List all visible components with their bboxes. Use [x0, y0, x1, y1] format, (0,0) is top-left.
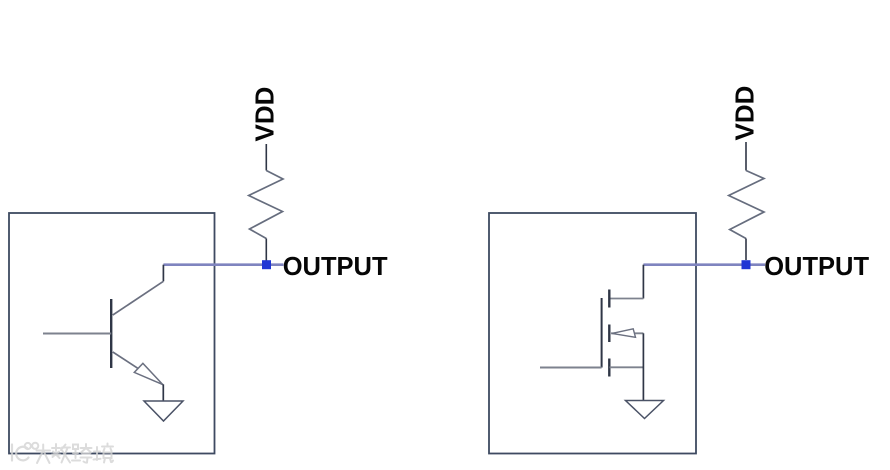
svg-text:VDD: VDD [250, 87, 280, 142]
ground symbol (left) [144, 401, 183, 421]
transistor M1 source lead [610, 366, 644, 368]
transistor Q1 emitter diagonal [113, 352, 163, 385]
transistor Q1 collector diagonal [113, 281, 164, 315]
wire emitter to ground [162, 384, 164, 401]
wire resistor R2 to output node [745, 239, 747, 261]
resistor R2 (pull-up, right) [729, 171, 764, 239]
ground symbol (right) [626, 401, 664, 419]
transistor M1 drain lead [610, 298, 644, 300]
resistor R1 (pull-up, left) [249, 171, 283, 239]
transistor M1 channel dash (body) [608, 325, 610, 343]
svg-text:OUTPUT: OUTPUT [283, 253, 388, 281]
wire OUTPUT net (left) [163, 263, 283, 266]
node junction OUTPUT (right) [742, 260, 751, 269]
wire VDD lead to resistor R1 [265, 144, 267, 171]
transistor M1 channel dash (source) [608, 359, 610, 377]
wire gate lead (right) [540, 367, 602, 369]
wire VDD lead to resistor R2 [745, 142, 747, 171]
wire base lead (left) [43, 333, 111, 335]
IC box U1 (left, open-collector BJT stage) [9, 213, 215, 454]
transistor M1 channel dash (drain) [608, 290, 610, 308]
svg-text:OUTPUT: OUTPUT [764, 253, 869, 281]
svg-text:VDD: VDD [730, 86, 760, 141]
transistor Q1 base bar [110, 299, 112, 368]
node junction OUTPUT (left) [262, 260, 271, 269]
watermark text (hand-drawn CJK strokes) [37, 444, 114, 464]
transistor Q1 NPN: collector riser wire [162, 265, 164, 282]
wire source to ground [642, 333, 644, 400]
wire OUTPUT net (right) [643, 263, 765, 266]
transistor Q1 emitter arrow [134, 363, 163, 384]
transistor M1 body arrow [612, 329, 636, 338]
transistor M1 NMOS: drain riser wire [642, 265, 644, 299]
transistor M1 gate bar [601, 298, 603, 368]
transistor M1 body lead [611, 332, 643, 334]
watermark logo [12, 443, 38, 461]
IC box U2 (right, open-drain MOS stage) [489, 213, 696, 454]
wire resistor R1 to output node [265, 239, 267, 262]
